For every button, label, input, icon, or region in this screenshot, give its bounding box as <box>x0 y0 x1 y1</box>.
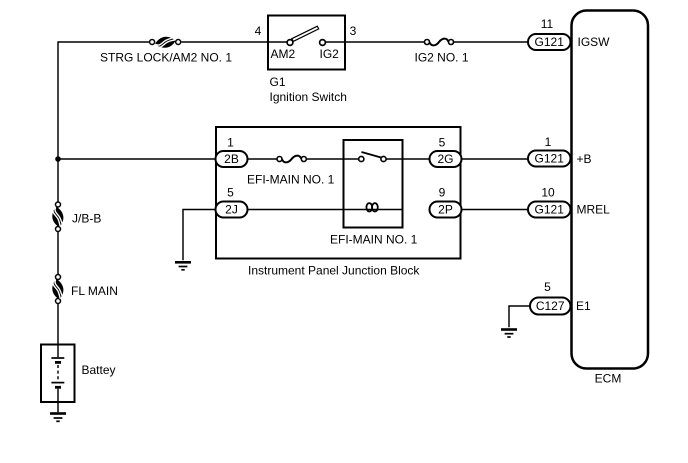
wire node A to connector 2B <box>58 158 216 160</box>
connector 2G <box>430 151 462 167</box>
wire ground to connector 2J <box>183 210 216 261</box>
ignition switch contact IG2 <box>320 40 326 46</box>
connector 2B <box>216 151 248 167</box>
wire top horizontal from node A to fusible link F1 <box>58 41 149 43</box>
svg-text:EFI-MAIN NO. 1: EFI-MAIN NO. 1 <box>330 233 418 247</box>
svg-text:G1: G1 <box>270 75 286 89</box>
ECM U1 box <box>572 11 649 369</box>
svg-text:9: 9 <box>439 186 446 200</box>
svg-text:1: 1 <box>227 136 234 150</box>
svg-text:E1: E1 <box>576 299 591 313</box>
battery cell plate long 2 <box>51 382 64 384</box>
svg-text:STRG LOCK/AM2 NO. 1: STRG LOCK/AM2 NO. 1 <box>100 51 232 65</box>
ignition switch contact AM2 <box>287 40 293 46</box>
svg-text:5: 5 <box>227 186 234 200</box>
wire J/B-B to FL MAIN <box>57 232 59 274</box>
svg-text:5: 5 <box>544 280 551 294</box>
svg-text:ECM: ECM <box>595 372 622 386</box>
svg-text:Instrument Panel Junction Bloc: Instrument Panel Junction Block <box>248 264 420 278</box>
svg-text:EFI-MAIN NO. 1: EFI-MAIN NO. 1 <box>247 172 335 186</box>
svg-text:IG2 NO. 1: IG2 NO. 1 <box>415 51 469 65</box>
wire fuse to relay box <box>306 158 358 160</box>
connector 2J <box>216 202 248 218</box>
fusible link J/B-B <box>52 202 63 232</box>
svg-text:G121: G121 <box>535 35 565 49</box>
relay lever <box>362 152 382 158</box>
ground below battery <box>50 414 66 422</box>
battery cell plate long 1 <box>51 357 64 359</box>
svg-text:11: 11 <box>541 17 554 31</box>
battery box <box>41 345 75 403</box>
wire relay to connector 2G <box>386 158 429 160</box>
node A junction dot <box>55 156 61 162</box>
battery cell plate short 2 <box>55 386 61 389</box>
connector G121 pin 1 <box>528 151 571 167</box>
connector G121 pin 10 <box>528 202 571 218</box>
wire battery negative to ground <box>57 389 59 413</box>
fuse EFI-MAIN NO. 1 <box>277 156 306 163</box>
wire FL MAIN to battery <box>57 304 59 357</box>
svg-text:+B: +B <box>577 152 592 166</box>
svg-text:IG2: IG2 <box>320 47 340 61</box>
connector C127 <box>530 298 571 315</box>
svg-text:C127: C127 <box>536 299 565 313</box>
svg-text:FL MAIN: FL MAIN <box>71 284 118 298</box>
ground at C127 <box>501 330 517 338</box>
ignition switch G1 box <box>268 16 345 70</box>
wire fusible link F1 to ignition switch pin 4 <box>182 41 269 43</box>
svg-text:4: 4 <box>255 24 262 38</box>
svg-text:2J: 2J <box>225 203 238 217</box>
svg-text:3: 3 <box>350 24 357 38</box>
wire left vertical battery feed upper segment <box>57 41 59 201</box>
relay contact left <box>359 156 364 161</box>
svg-text:IGSW: IGSW <box>578 35 611 49</box>
connector G121 pin 11 <box>528 34 571 50</box>
relay contact right <box>381 156 386 161</box>
wire ground to connector C127 <box>509 306 530 327</box>
fusible link F1 STRG LOCK/AM2 NO. 1 <box>150 37 181 48</box>
wire 2G to connector G121 pin 1 <box>462 158 529 160</box>
wire ignition switch pin 4 stub <box>268 41 287 43</box>
svg-text:2B: 2B <box>224 152 239 166</box>
svg-text:J/B-B: J/B-B <box>72 212 101 226</box>
ignition switch lever <box>292 26 319 41</box>
relay coil <box>366 203 377 211</box>
svg-text:G121: G121 <box>535 152 565 166</box>
svg-text:1: 1 <box>545 135 552 149</box>
instrument panel junction block box <box>216 127 461 259</box>
fusible link FL MAIN <box>52 275 63 304</box>
svg-text:10: 10 <box>541 185 555 199</box>
svg-text:Battey: Battey <box>82 363 116 377</box>
svg-text:G121: G121 <box>535 203 565 217</box>
svg-text:AM2: AM2 <box>271 47 296 61</box>
battery cell plate short 1 <box>55 361 61 364</box>
wire 2J to relay coil <box>248 209 403 211</box>
battery dashed link <box>57 365 59 381</box>
wire 2P to connector G121 pin 10 <box>462 209 529 211</box>
svg-text:Ignition Switch: Ignition Switch <box>270 90 347 104</box>
ground at junction block 2J <box>175 262 191 270</box>
connector 2P <box>430 202 462 218</box>
relay EFI-MAIN NO. 1 box <box>344 140 403 228</box>
wire fuse IG2 NO. 1 to connector G121 pin 11 <box>454 41 529 43</box>
svg-text:2G: 2G <box>437 152 453 166</box>
wire ignition switch pin 3 to fuse IG2 NO. 1 <box>345 41 425 43</box>
svg-text:5: 5 <box>439 136 446 150</box>
svg-text:MREL: MREL <box>577 203 611 217</box>
wire ignition switch contact IG2 to box edge <box>326 41 346 43</box>
wire 2B to fuse EFI-MAIN NO. 1 <box>248 158 278 160</box>
fuse IG2 NO. 1 <box>425 39 454 46</box>
svg-text:2P: 2P <box>438 203 453 217</box>
